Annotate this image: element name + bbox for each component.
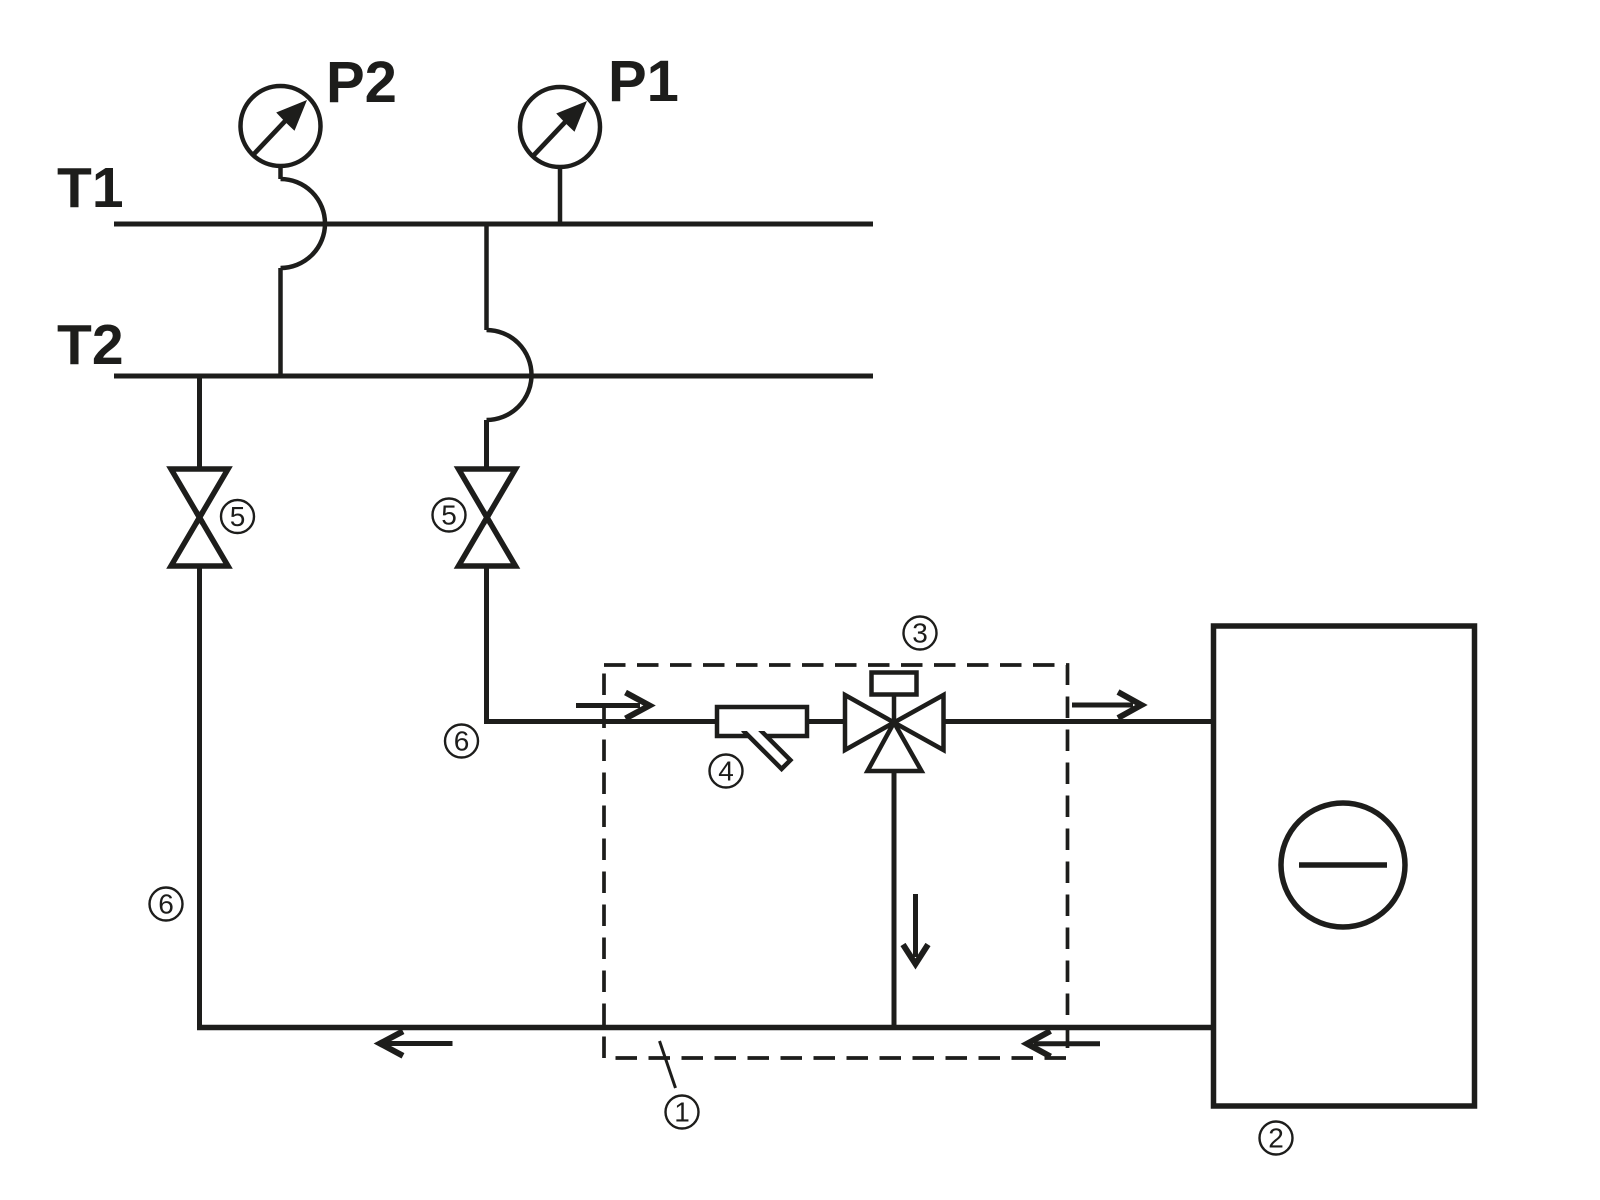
- svg-text:P1: P1: [608, 49, 679, 114]
- svg-text:3: 3: [912, 618, 928, 649]
- label 6 (corner): [445, 725, 478, 758]
- dashed boundary box (mixing unit 1): [604, 665, 1068, 1058]
- flow arrow left (bottom right return): [1027, 1031, 1100, 1057]
- leader line for label 1: [660, 1041, 676, 1088]
- flow arrow right (to heat exchanger): [1072, 692, 1142, 718]
- gauge P2 body: [241, 86, 321, 166]
- pipe T2 (return line): [114, 374, 873, 379]
- three-way valve 3: bottom triangle: [868, 723, 922, 772]
- heat exchanger 2 body: [1214, 626, 1475, 1106]
- label 5 (left valve): [221, 500, 254, 533]
- label 6 (left riser): [150, 888, 183, 921]
- svg-text:2: 2: [1268, 1123, 1284, 1154]
- heat exchanger 2 pump circle: [1281, 803, 1405, 927]
- gauge P1 body: [520, 87, 600, 167]
- three-way valve 3: left triangle: [845, 695, 894, 750]
- label 3: [904, 617, 937, 650]
- wire: P2 hop over T1: [281, 179, 326, 268]
- wire: valve bypass drop: [892, 771, 897, 1028]
- valve 5 (right): [459, 469, 516, 566]
- wire: T2 drop to left valve: [197, 376, 202, 468]
- wire: left valve down to return pipe: [197, 566, 202, 1030]
- gauge P2 needle: [254, 118, 289, 155]
- pipe T1 (supply line): [114, 222, 873, 227]
- svg-text:5: 5: [441, 500, 457, 531]
- three-way valve 3: right triangle: [894, 695, 944, 750]
- pipe: bottom return line: [197, 1025, 1213, 1031]
- wire: P1 stem to T1: [558, 167, 563, 224]
- wire: hop over T2: [487, 330, 532, 420]
- label 4: [710, 755, 743, 788]
- wire: P2 stem: [278, 166, 283, 179]
- svg-text:4: 4: [718, 756, 734, 787]
- svg-text:T2: T2: [57, 313, 124, 377]
- three-way valve 3: actuator box: [872, 673, 917, 695]
- gauge P2 needle head: [276, 100, 307, 131]
- heat exchanger 2 pump bar: [1299, 862, 1387, 868]
- svg-text:1: 1: [674, 1097, 690, 1128]
- wire: drop to right valve: [484, 420, 489, 468]
- svg-text:P2: P2: [326, 50, 397, 115]
- label 5 (right valve): [433, 499, 466, 532]
- wire: right valve to corner: [484, 566, 489, 724]
- filter 4 body: [717, 707, 807, 736]
- label 2: [1260, 1122, 1293, 1155]
- svg-text:5: 5: [230, 501, 246, 532]
- flow arrow right (into unit): [576, 693, 650, 719]
- wire: P2 drop to T2: [278, 268, 283, 376]
- svg-text:T1: T1: [57, 156, 124, 220]
- svg-text:6: 6: [454, 726, 470, 757]
- flow arrow left (bottom left return): [380, 1031, 453, 1056]
- label 1: [666, 1096, 699, 1129]
- pipe: corner to mixing unit: [484, 719, 1213, 724]
- gauge P1 needle: [534, 119, 569, 156]
- svg-text:6: 6: [158, 889, 174, 920]
- valve 5 (left): [171, 469, 228, 566]
- wire: T1 drop: [484, 224, 489, 330]
- three-way valve 3: actuator stem: [892, 695, 897, 723]
- flow arrow down (bypass): [903, 894, 928, 964]
- gauge P1 needle head: [556, 101, 587, 132]
